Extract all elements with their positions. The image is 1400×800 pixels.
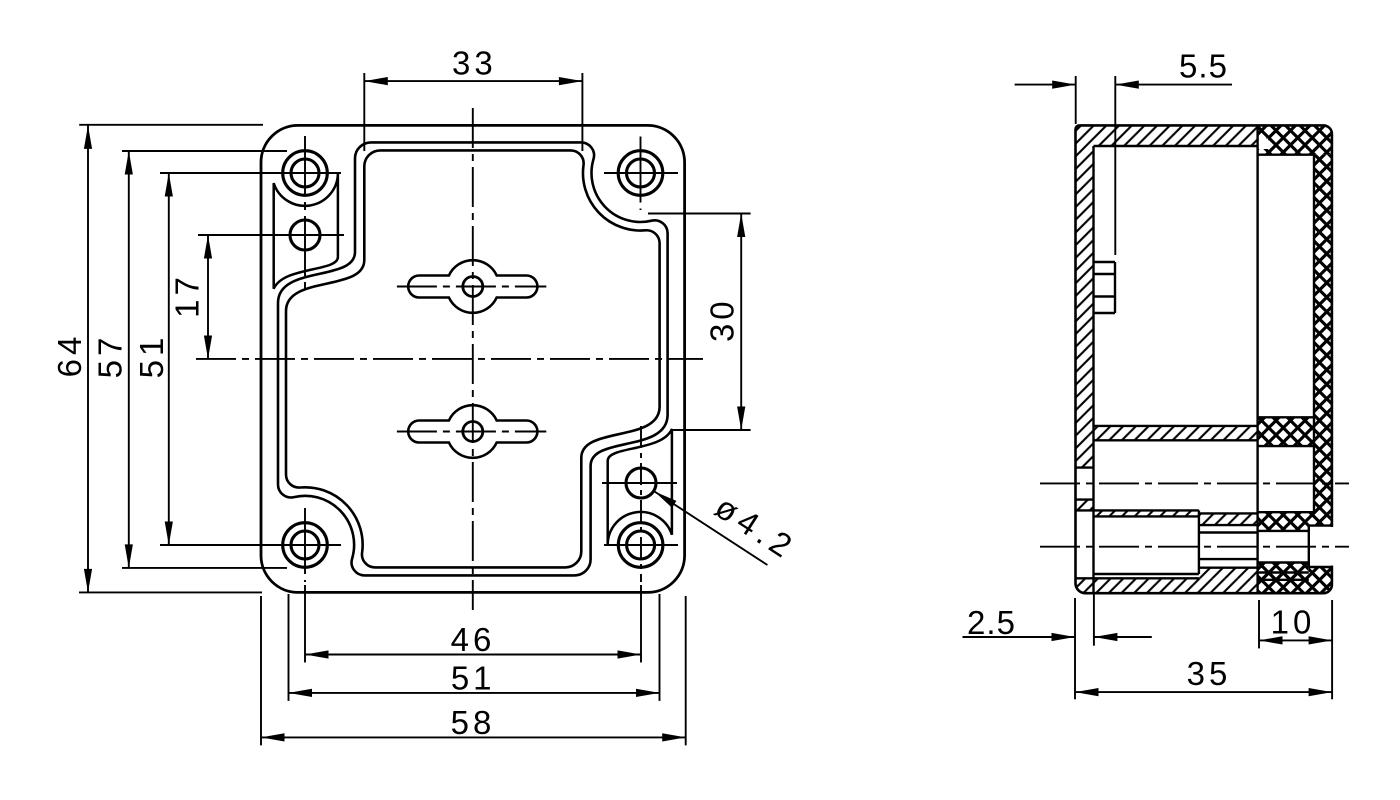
svg-text:35: 35 [1187, 655, 1232, 692]
svg-text:57: 57 [92, 334, 129, 379]
svg-text:51: 51 [451, 659, 496, 696]
svg-text:17: 17 [169, 273, 206, 318]
svg-text:33: 33 [452, 45, 497, 82]
svg-text:30: 30 [704, 297, 741, 342]
svg-text:5.5: 5.5 [1179, 47, 1227, 84]
svg-text:46: 46 [451, 621, 496, 658]
svg-text:2.5: 2.5 [967, 604, 1015, 641]
svg-text:51: 51 [133, 334, 170, 379]
svg-text:58: 58 [451, 704, 496, 741]
svg-text:64: 64 [51, 333, 88, 378]
svg-text:10: 10 [1271, 603, 1316, 640]
